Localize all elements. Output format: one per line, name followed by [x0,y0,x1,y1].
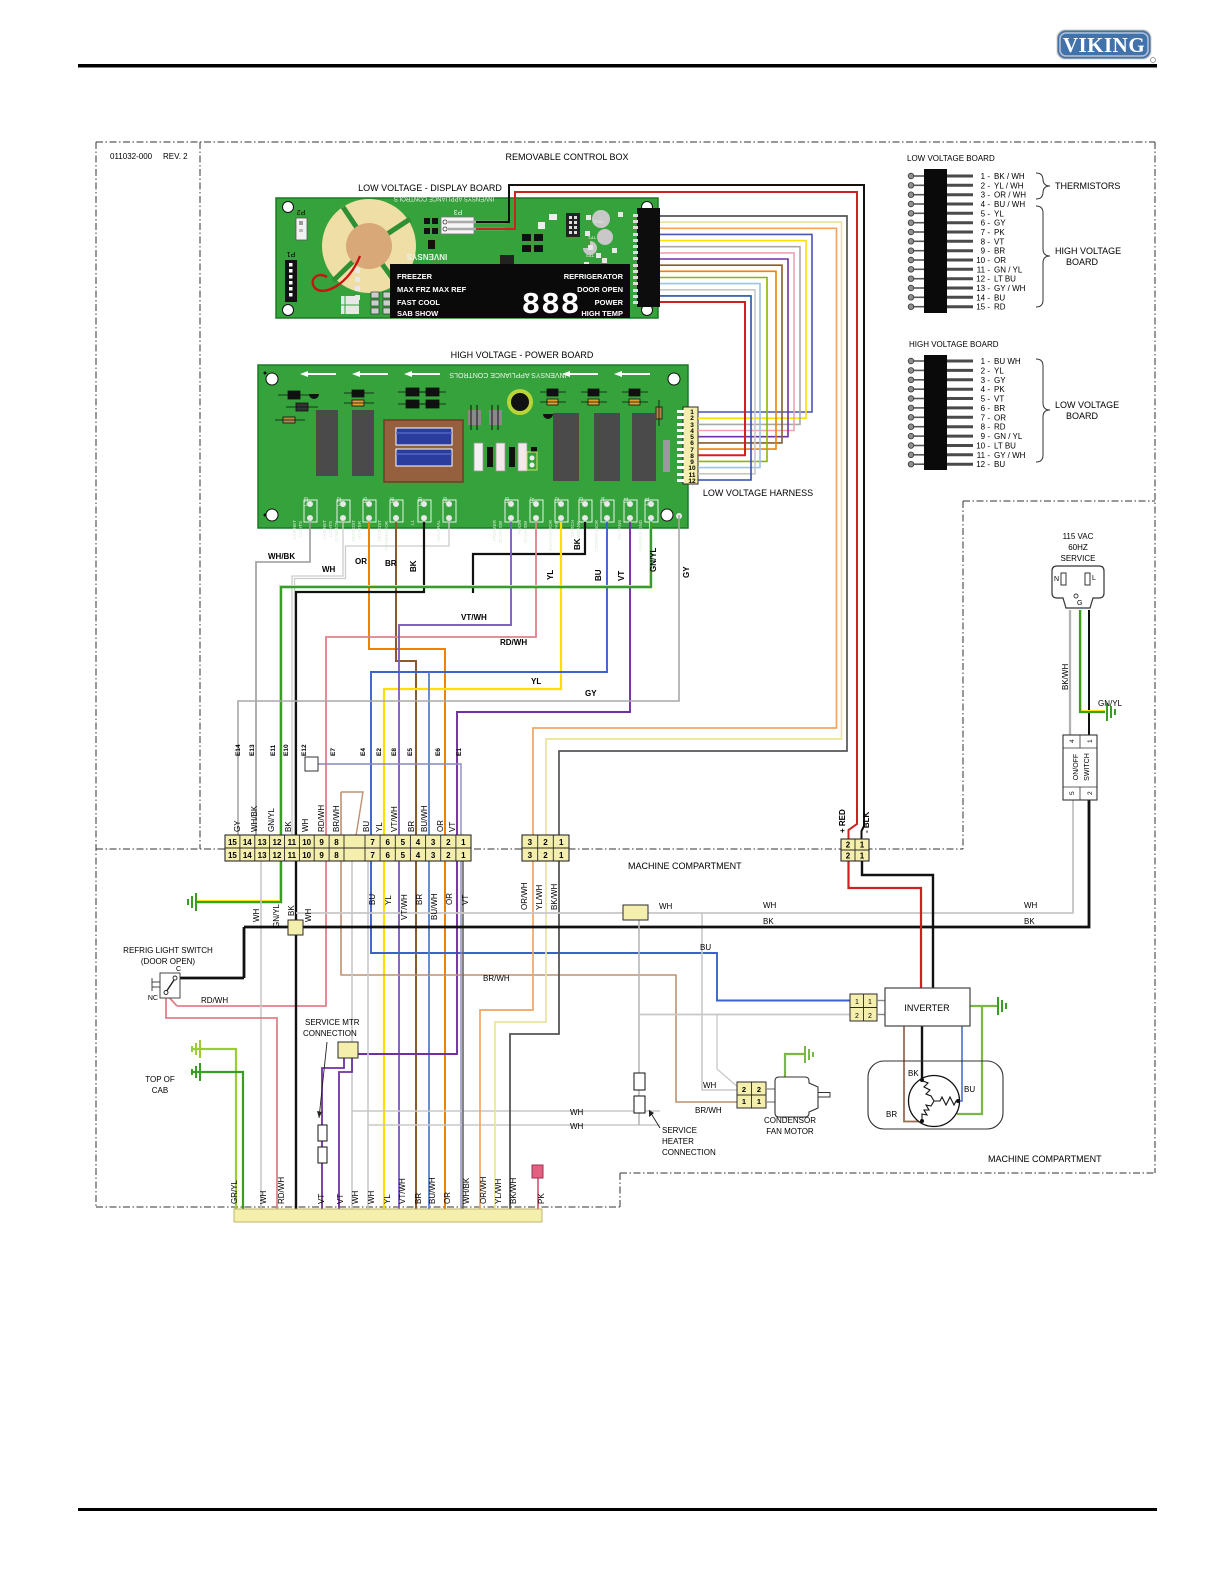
svg-text:E1: E1 [624,497,630,503]
svg-text:1: 1 [868,999,872,1006]
svg-text:COMMON: COMMON [334,521,339,542]
svg-text:12: 12 [688,478,696,485]
svg-text:BU: BU [362,821,371,832]
svg-text:VT: VT [617,571,626,581]
svg-text:BOARD: BOARD [1066,257,1099,267]
svg-text:E12: E12 [301,744,308,756]
svg-text:ON/OFF: ON/OFF [1073,754,1080,780]
svg-text:WH: WH [351,1190,360,1204]
svg-text:YL: YL [531,677,541,686]
svg-text:15: 15 [228,851,237,860]
svg-text:SERVICE: SERVICE [662,1126,697,1135]
svg-text:7 -: 7 - [981,413,991,422]
svg-text:VT: VT [336,1194,345,1204]
svg-text:GY: GY [994,219,1006,228]
svg-text:SERVICE MTR: SERVICE MTR [305,1018,360,1027]
svg-text:1: 1 [461,851,466,860]
svg-text:CABINET: CABINET [322,520,327,540]
svg-text:E10: E10 [418,497,424,506]
svg-text:7 -: 7 - [981,228,991,237]
svg-text:HEATER: HEATER [357,520,362,539]
svg-text:BR/WH: BR/WH [483,974,510,983]
svg-text:SWITCH: SWITCH [1084,753,1091,781]
svg-text:WH/BK: WH/BK [462,1177,471,1204]
svg-text:POWER: POWER [595,298,624,307]
svg-text:GN/YL: GN/YL [1098,699,1123,708]
svg-text:GY: GY [233,820,242,832]
svg-text:WH: WH [570,1108,584,1117]
svg-text:BK/WH: BK/WH [1061,664,1070,690]
svg-text:ROOM: ROOM [517,520,522,534]
svg-text:FREEZER: FREEZER [492,519,497,541]
svg-text:REFRIG LIGHT SWITCH: REFRIG LIGHT SWITCH [123,946,213,955]
svg-text:LIGHTS: LIGHTS [328,521,333,537]
svg-text:12: 12 [273,851,282,860]
svg-text:10 -: 10 - [976,256,990,265]
svg-text:DOOR SW: DOOR SW [498,520,503,543]
svg-text:2: 2 [446,851,451,860]
svg-text:1: 1 [1087,739,1094,743]
svg-text:11 -: 11 - [977,265,991,274]
svg-text:YL: YL [546,570,555,580]
svg-text:BU: BU [368,894,377,905]
svg-text:11: 11 [288,838,297,847]
svg-text:HIGH VOLTAGE: HIGH VOLTAGE [1055,246,1121,256]
svg-text:2: 2 [757,1085,761,1094]
svg-text:YL: YL [384,895,393,905]
svg-text:3: 3 [528,851,533,860]
svg-text:1: 1 [742,1097,746,1106]
svg-text:2 -: 2 - [981,366,991,375]
svg-text:BK: BK [284,821,293,832]
svg-text:13: 13 [258,851,267,860]
svg-text:12: 12 [273,838,282,847]
svg-text:E6: E6 [390,497,396,503]
svg-text:TP1: TP1 [587,235,596,240]
svg-text:4 -: 4 - [981,200,991,209]
svg-text:E4: E4 [360,748,367,756]
svg-text:2 -: 2 - [981,181,991,190]
svg-text:LOW VOLTAGE - DISPLAY BOARD: LOW VOLTAGE - DISPLAY BOARD [358,183,502,193]
svg-text:E14: E14 [235,744,242,756]
svg-text:OR / WH: OR / WH [994,191,1026,200]
svg-text:WH: WH [322,565,336,574]
svg-text:3: 3 [431,851,436,860]
svg-text:E11: E11 [645,497,651,506]
svg-text:FAN: FAN [554,521,559,530]
svg-text:CABINET: CABINET [292,520,297,540]
svg-text:011032-000: 011032-000 [110,152,153,161]
svg-text:(DOOR OPEN): (DOOR OPEN) [141,957,196,966]
svg-text:2: 2 [446,838,451,847]
svg-text:LT BU: LT BU [994,442,1016,451]
svg-text:RD/WH: RD/WH [201,996,228,1005]
svg-text:BU: BU [994,460,1005,469]
svg-text:E1: E1 [456,748,463,756]
svg-text:14: 14 [243,851,252,860]
svg-text:VT: VT [994,395,1004,404]
svg-text:11 -: 11 - [977,451,991,460]
svg-text:OR: OR [355,557,367,566]
svg-text:BR/WH: BR/WH [332,805,341,832]
svg-text:YL: YL [383,1194,392,1204]
svg-text:5 -: 5 - [981,395,991,404]
svg-text:THERMISTORS: THERMISTORS [1055,181,1120,191]
svg-text:1 -: 1 - [981,357,991,366]
svg-text:WH: WH [570,1122,584,1131]
svg-text:E5: E5 [407,748,414,756]
svg-text:GY: GY [585,689,597,698]
svg-text:BU / WH: BU / WH [994,200,1025,209]
svg-text:2: 2 [868,1013,872,1020]
svg-text:1 -: 1 - [981,172,991,181]
svg-text:4: 4 [1069,739,1076,743]
svg-text:YL/WH: YL/WH [494,1178,503,1204]
svg-text:E5: E5 [363,497,369,503]
svg-text:BR/WH: BR/WH [695,1106,722,1115]
svg-text:OR/WH: OR/WH [479,1176,488,1204]
svg-text:LOW VOLTAGE HARNESS: LOW VOLTAGE HARNESS [703,488,813,498]
svg-text:VT: VT [317,1194,326,1204]
svg-text:C: C [176,966,181,973]
svg-text:4 -: 4 - [981,385,991,394]
svg-text:CONDENSOR: CONDENSOR [764,1116,816,1125]
svg-text:BK: BK [1024,917,1035,926]
svg-text:GY / WH: GY / WH [994,451,1026,460]
svg-text:9: 9 [319,838,324,847]
svg-text:BR: BR [994,247,1005,256]
svg-text:6: 6 [385,838,390,847]
svg-text:PK: PK [994,228,1005,237]
svg-text:E13: E13 [304,497,310,506]
svg-text:MAX FRZ MAX REF: MAX FRZ MAX REF [397,285,467,294]
svg-text:6: 6 [385,851,390,860]
svg-text:LOW VOLTAGE BOARD: LOW VOLTAGE BOARD [907,154,995,163]
svg-text:CAB: CAB [152,1086,168,1095]
svg-text:10 -: 10 - [976,442,990,451]
svg-text:YL: YL [994,366,1004,375]
svg-text:BK: BK [763,917,774,926]
svg-text:1: 1 [559,838,564,847]
svg-text:14: 14 [243,838,252,847]
svg-text:E8: E8 [391,748,398,756]
svg-text:BK: BK [908,1069,919,1078]
svg-text:BK/WH: BK/WH [509,1178,518,1204]
svg-text:E7: E7 [530,497,536,503]
svg-text:P3: P3 [454,208,463,215]
svg-text:2: 2 [855,1013,859,1020]
svg-text:1: 1 [855,999,859,1006]
svg-text:VT/WH: VT/WH [390,806,399,832]
svg-text:2: 2 [543,851,548,860]
svg-text:LT BU: LT BU [994,275,1016,284]
svg-text:HEATER: HEATER [662,1137,694,1146]
svg-text:BU WH: BU WH [994,357,1021,366]
svg-text:DC FANS: DC FANS [617,520,622,540]
svg-text:L: L [1092,575,1096,582]
svg-text:EVAPORATOR: EVAPORATOR [548,519,553,550]
svg-text:GN / YL: GN / YL [994,265,1023,274]
svg-text:DOOR SW: DOOR SW [523,520,528,543]
svg-text:3: 3 [431,838,436,847]
svg-text:TP22: TP22 [592,219,603,224]
svg-text:60HZ: 60HZ [1068,543,1088,552]
svg-text:8 -: 8 - [981,423,991,432]
svg-text:DEFROST: DEFROST [351,520,356,542]
svg-text:CONNECTION: CONNECTION [662,1148,716,1157]
svg-text:E4: E4 [601,497,607,503]
svg-text:12 -: 12 - [976,460,990,469]
svg-text:3 -: 3 - [981,191,991,200]
svg-text:E12: E12 [337,497,343,506]
svg-text:8 -: 8 - [981,237,991,246]
svg-text:WH: WH [659,902,673,911]
svg-text:9: 9 [319,851,324,860]
svg-text:13 -: 13 - [976,284,990,293]
svg-text:+ RED: + RED [838,809,847,833]
svg-text:2: 2 [690,415,694,422]
svg-text:RD: RD [994,423,1006,432]
svg-text:10: 10 [688,465,696,472]
svg-text:GY / WH: GY / WH [994,284,1026,293]
svg-text:P1: P1 [287,250,296,257]
svg-text:HIGH VOLTAGE BOARD: HIGH VOLTAGE BOARD [909,340,999,349]
svg-text:3 -: 3 - [981,376,991,385]
svg-text:5: 5 [401,838,406,847]
svg-text:DEFROST: DEFROST [377,520,382,542]
svg-text:BR: BR [407,821,416,832]
svg-text:2: 2 [742,1085,746,1094]
svg-text:BK: BK [287,905,296,916]
svg-text:VT/WH: VT/WH [398,1178,407,1204]
svg-text:LIGHTS: LIGHTS [298,521,303,537]
svg-text:E10: E10 [283,744,290,756]
svg-text:FAN MOTOR: FAN MOTOR [766,1127,814,1136]
svg-text:VT/WH: VT/WH [400,894,409,920]
svg-text:WH: WH [703,1081,717,1090]
svg-text:7: 7 [370,851,375,860]
svg-text:VIKING: VIKING [1063,33,1145,57]
svg-text:OR: OR [436,820,445,832]
svg-text:2: 2 [846,841,851,850]
svg-text:RD: RD [994,303,1006,312]
svg-text:N: N [1054,576,1059,583]
svg-text:P2: P2 [297,208,306,215]
svg-text:10: 10 [302,851,311,860]
svg-text:DOOR OPEN: DOOR OPEN [577,285,623,294]
svg-text:BU: BU [700,943,711,952]
svg-text:11: 11 [288,851,297,860]
svg-text:1: 1 [860,852,865,861]
svg-text:WH: WH [304,908,313,922]
svg-text:CHASSIS GND: CHASSIS GND [638,519,643,551]
svg-text:SWITCH: SWITCH [570,520,575,538]
svg-text:CONNECTION: CONNECTION [303,1029,357,1038]
svg-text:GR/YL: GR/YL [230,1179,239,1204]
svg-text:GN/YL: GN/YL [649,547,658,572]
svg-text:GY: GY [994,376,1006,385]
svg-text:FAST COOL: FAST COOL [397,298,440,307]
svg-text:BR: BR [886,1110,897,1119]
svg-text:- BLK: - BLK [862,811,871,833]
svg-text:COMPRESSOR: COMPRESSOR [594,519,599,552]
svg-text:VT/WH: VT/WH [461,613,487,622]
svg-text:RD/WH: RD/WH [500,638,527,647]
svg-text:INVENSYS: INVENSYS [406,252,447,261]
svg-text:NEUTRAL: NEUTRAL [436,520,441,542]
svg-text:RD/WH: RD/WH [317,805,326,832]
svg-text:E6: E6 [435,748,442,756]
svg-text:3: 3 [528,838,533,847]
svg-text:BU: BU [594,569,603,581]
svg-text:BU: BU [994,293,1005,302]
svg-text:12 -: 12 - [976,275,990,284]
svg-text:HIGH TEMP: HIGH TEMP [581,309,623,318]
svg-text:BU: BU [964,1085,975,1094]
svg-text:2: 2 [846,852,851,861]
svg-text:REMOVABLE CONTROL BOX: REMOVABLE CONTROL BOX [505,152,628,162]
svg-text:REFRIGERATOR: REFRIGERATOR [564,272,624,281]
svg-text:WH: WH [367,1190,376,1204]
svg-text:2: 2 [543,838,548,847]
svg-text:HIGH VOLTAGE - POWER BOARD: HIGH VOLTAGE - POWER BOARD [451,350,594,360]
svg-text:6 -: 6 - [981,404,991,413]
svg-text:GN / YL: GN / YL [994,432,1023,441]
svg-text:SERVICE: SERVICE [1061,554,1096,563]
svg-text:BR: BR [415,894,424,905]
svg-text:BR: BR [385,559,397,568]
svg-text:YL: YL [994,209,1004,218]
svg-text:BOARD: BOARD [1066,411,1099,421]
svg-text:WH: WH [763,901,777,910]
svg-text:BU/WH: BU/WH [428,1177,437,1204]
svg-text:BK: BK [409,560,418,572]
svg-text:VT: VT [448,822,457,832]
svg-text:7: 7 [370,838,375,847]
svg-text:WH/BK: WH/BK [268,552,295,561]
svg-text:6 -: 6 - [981,219,991,228]
svg-text:INVERTER: INVERTER [904,1003,950,1013]
svg-text:WH: WH [301,818,310,832]
svg-text:E9: E9 [443,497,449,503]
svg-text:13: 13 [258,838,267,847]
svg-text:2: 2 [1087,791,1094,795]
svg-text:G: G [1077,600,1082,607]
svg-text:OR: OR [994,413,1006,422]
svg-text:YL/WH: YL/WH [535,884,544,910]
svg-text:WH: WH [252,908,261,922]
svg-text:WH: WH [259,1190,268,1204]
svg-text:E11: E11 [270,744,277,756]
svg-text:TOP OF: TOP OF [145,1075,175,1084]
svg-text:9 -: 9 - [981,432,991,441]
svg-text:1: 1 [757,1097,761,1106]
svg-text:BR: BR [994,404,1005,413]
svg-text:8: 8 [334,851,339,860]
svg-text:14 -: 14 - [976,293,990,302]
svg-text:1: 1 [860,841,865,850]
svg-text:1: 1 [461,838,466,847]
svg-text:15: 15 [228,838,237,847]
svg-text:INVENSYS APPLIANCE CONTROLS: INVENSYS APPLIANCE CONTROLS [394,195,494,201]
svg-text:REV. 2: REV. 2 [163,152,188,161]
svg-text:BK: BK [573,538,582,550]
svg-text:E8: E8 [505,497,511,503]
svg-text:MACHINE COMPARTMENT: MACHINE COMPARTMENT [988,1154,1102,1164]
svg-text:OR: OR [443,1192,452,1204]
svg-text:E13: E13 [249,744,256,756]
svg-text:OR/WH: OR/WH [520,882,529,910]
svg-text:5: 5 [401,851,406,860]
svg-text:NC: NC [148,995,158,1002]
svg-text:PK: PK [537,1193,546,1204]
svg-text:INVENSYS APPLIANCE CONTROLS: INVENSYS APPLIANCE CONTROLS [449,371,566,378]
svg-text:BK / WH: BK / WH [994,172,1025,181]
svg-text:FREEZER: FREEZER [397,272,433,281]
svg-text:RD/WH: RD/WH [277,1177,286,1204]
svg-text:BR: BR [414,1193,423,1204]
svg-text:BU/WH: BU/WH [420,805,429,832]
svg-text:OR: OR [445,893,454,905]
svg-text:TP2: TP2 [585,253,594,258]
svg-text:15 -: 15 - [976,303,990,312]
svg-text:GY: GY [682,566,691,578]
svg-text:888: 888 [522,288,581,323]
svg-text:10: 10 [302,838,311,847]
svg-text:E2: E2 [555,497,561,503]
svg-text:WH/BK: WH/BK [250,805,259,832]
svg-text:1: 1 [559,851,564,860]
svg-text:YL / WH: YL / WH [994,181,1024,190]
svg-text:YL: YL [375,822,384,832]
svg-text:WH: WH [1024,901,1038,910]
svg-text:BK/WH: BK/WH [550,884,559,910]
svg-text:SAB SHOW: SAB SHOW [397,309,439,318]
svg-text:MACHINE COMPARTMENT: MACHINE COMPARTMENT [628,861,742,871]
svg-text:4: 4 [416,851,421,860]
svg-text:6: 6 [690,440,694,447]
svg-text:PK: PK [994,385,1005,394]
svg-text:GN/YL: GN/YL [272,903,281,928]
svg-text:4: 4 [416,838,421,847]
svg-text:5 -: 5 - [981,209,991,218]
svg-text:BU/WH: BU/WH [430,893,439,920]
svg-text:5: 5 [1069,791,1076,795]
svg-text:L1: L1 [410,520,415,526]
svg-text:E7: E7 [330,748,337,756]
svg-text:E3: E3 [579,497,585,503]
svg-text:115 VAC: 115 VAC [1063,532,1094,541]
svg-text:9 -: 9 - [981,247,991,256]
svg-text:VT: VT [994,237,1004,246]
svg-text:GN/YL: GN/YL [267,807,276,832]
svg-text:OR: OR [994,256,1006,265]
svg-text:VT: VT [461,895,470,905]
svg-text:8: 8 [334,838,339,847]
svg-text:E2: E2 [376,748,383,756]
svg-text:LOW VOLTAGE: LOW VOLTAGE [1055,400,1119,410]
